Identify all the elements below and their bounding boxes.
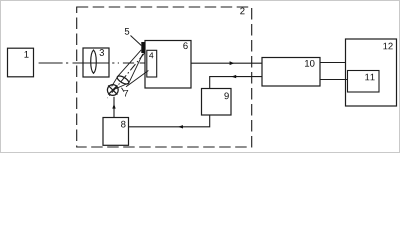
wire: box 10 to box 9 (left then down, arrow left) — [210, 77, 262, 89]
box 6 (detector housing) — [145, 41, 191, 89]
box 12 (evaluation unit) — [346, 39, 397, 106]
leader line for label 5 — [131, 36, 142, 46]
box 1 (source unit) — [8, 48, 34, 77]
label 1 — [24, 51, 28, 58]
lens L3 (biconvex vesica) — [91, 50, 97, 73]
label 5 — [125, 28, 130, 35]
label 7 — [124, 90, 128, 97]
wire: box 8 to lamp 7 (vertical, arrow up) — [113, 97, 115, 118]
leader line for label 7 — [122, 88, 125, 92]
condenser lens (tilted ellipse) — [116, 74, 130, 85]
wire: box 10 to box 12 — [320, 62, 346, 64]
box 9 (control unit) — [202, 89, 232, 116]
wire: main optical axis (dash-dot) from box 1 to box 4 — [39, 62, 145, 64]
wire: box 6 to box 10 (arrow right) — [191, 62, 262, 64]
wire: lamp optical axis (dash-dot diagonal) — [108, 53, 146, 99]
enclosure 2 (dash-dot boundary box) — [77, 7, 252, 147]
wire: box 9 to box 8 (down then left, arrow left) — [129, 115, 210, 127]
label 2 — [240, 8, 244, 15]
light ray a (lens tip to slit) — [117, 50, 141, 77]
lamp 7 (circle with X) — [107, 85, 118, 96]
label 9 — [224, 92, 228, 99]
label 4 — [149, 52, 153, 58]
label 8 — [121, 121, 125, 128]
light ray b (lens tip to slit) — [129, 54, 143, 83]
label 12 — [383, 43, 392, 50]
label 11 — [365, 74, 374, 81]
wire: box 10 to box 11 — [320, 79, 348, 81]
box 10 (amplifier) — [262, 58, 320, 87]
label 6 — [183, 42, 187, 49]
box 3 (lens housing) — [83, 48, 109, 77]
light ray e (through box 4 lower wall) — [126, 71, 148, 87]
box 4 (detector element) — [147, 50, 157, 77]
light ray c (lamp to lens tip) — [112, 77, 118, 87]
box 11 (display inside 12) — [348, 71, 380, 93]
box 8 (lamp supply) — [103, 118, 129, 146]
label 10 — [305, 60, 314, 67]
label 3 — [100, 49, 105, 56]
slit 5 (filled bar on wall of box 6) — [141, 42, 145, 53]
light ray d (lamp to lens tip) — [116, 83, 129, 89]
